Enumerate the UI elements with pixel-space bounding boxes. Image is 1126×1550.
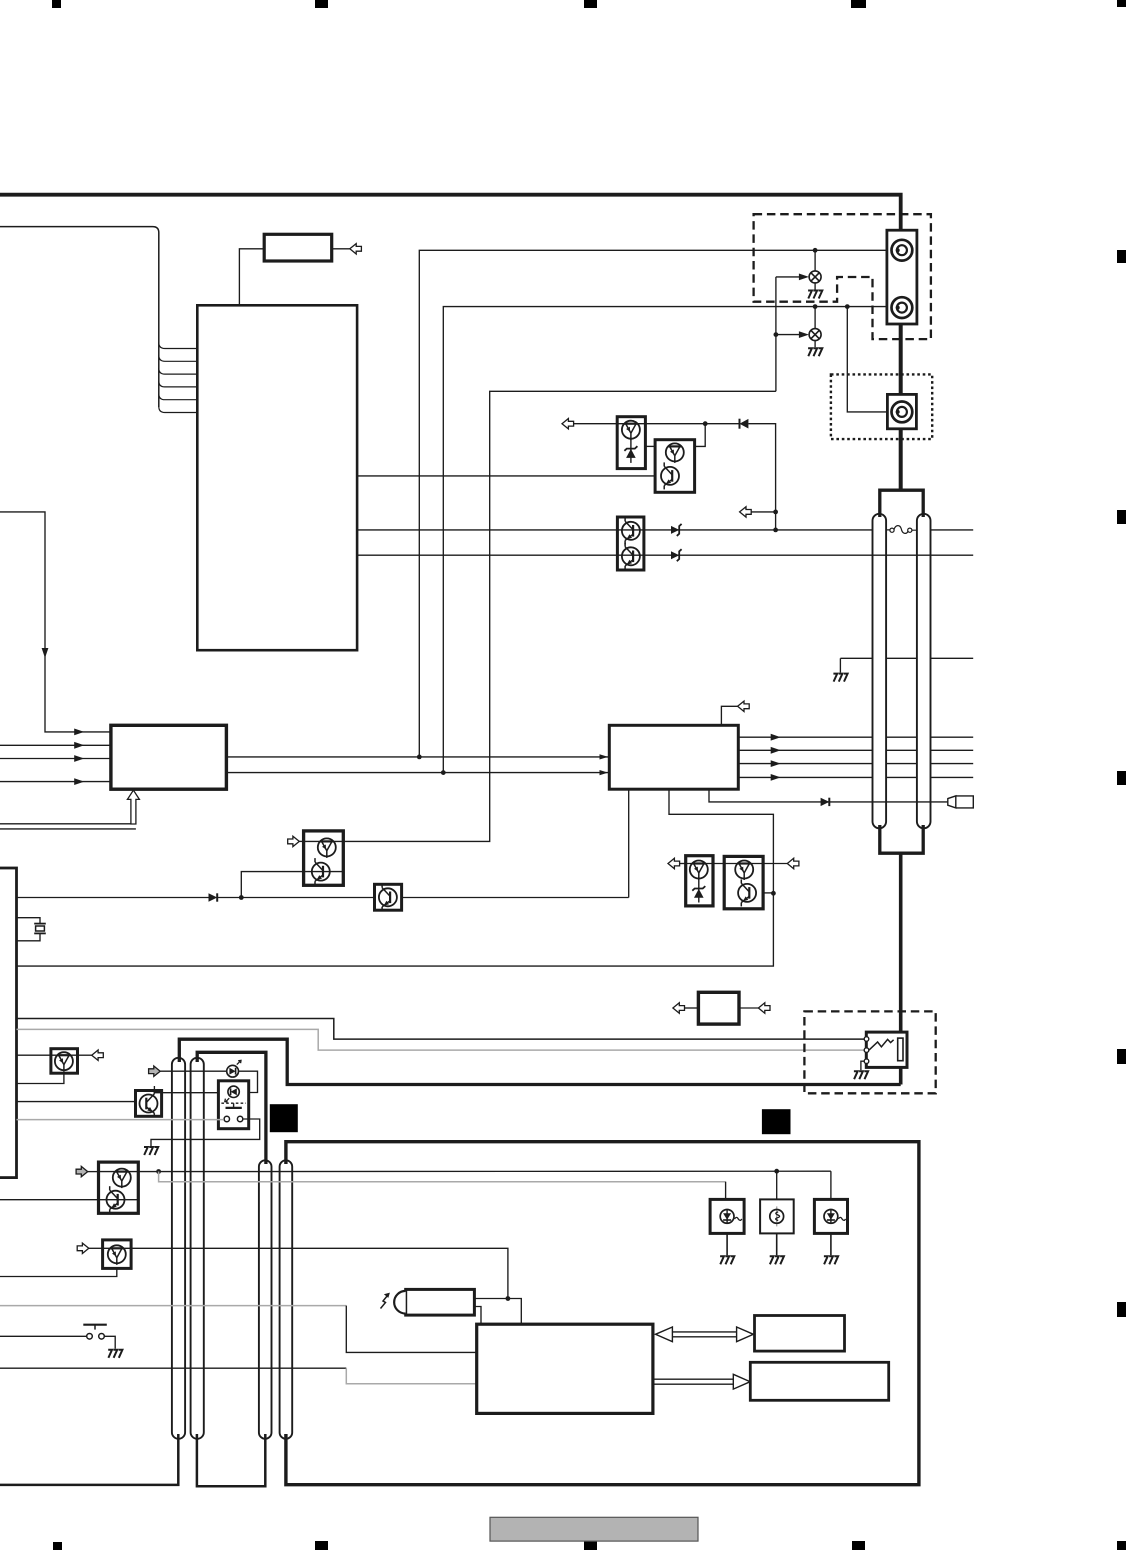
jack pin 3 (864, 1059, 869, 1064)
node dot Q7b join (771, 891, 776, 896)
ribbon wire 5 (159, 394, 198, 400)
transistor block Q1 (with zener) (617, 417, 645, 469)
transistor block Q4 (dual) (304, 831, 344, 885)
transistor Q6a (690, 861, 708, 881)
transistor Q10b (107, 1186, 125, 1213)
photo transistor D9 (225, 1086, 240, 1102)
RCA jack 1 (892, 240, 913, 261)
wire D2 to riser (748, 424, 775, 530)
ground on cable shield (833, 674, 847, 682)
wire MCU to Q9 (17, 1101, 136, 1103)
illumination branch (gray) (159, 1172, 726, 1182)
RCA group dashed outline (754, 214, 931, 339)
level block R2 (698, 992, 739, 1024)
wire into Q1 with exit arrow (574, 423, 646, 425)
transistor block Q2 (dual) (655, 440, 695, 493)
illumination supply wire (138, 1170, 831, 1172)
Q8 emitter return (17, 1073, 64, 1083)
ribbon wire 2 (159, 355, 198, 361)
switch plunger (233, 1103, 235, 1107)
amp block IC3 (609, 725, 738, 789)
resistor R1 block (264, 234, 332, 261)
ground under D11 (830, 1233, 832, 1255)
Q11 input arrow (89, 1247, 103, 1249)
wire R1 output with arrow (332, 248, 350, 250)
IC3 output 2 (738, 749, 973, 751)
LED block drop 3 (830, 1171, 832, 1199)
LED block D10 (710, 1199, 744, 1233)
wire through Q4a (304, 840, 344, 842)
node dot audio L join (773, 528, 778, 533)
node riser to jack L wire (443, 307, 887, 773)
jack 3 dotted outline (831, 374, 932, 439)
mute tap arrow (751, 511, 775, 513)
coil L1 in cable (886, 526, 917, 534)
audio wire L after cable (931, 529, 974, 531)
node dot Q2a join (703, 421, 708, 426)
ribbon wire 4 (159, 381, 198, 387)
chassis lamp 2 drop (814, 307, 816, 329)
main board top border (0, 195, 901, 231)
connector bar CN1a (172, 1058, 185, 1439)
transistor block Q11 (103, 1240, 132, 1269)
node dot L wire (813, 304, 818, 309)
CN1b-CN2a bottom link (197, 1434, 265, 1486)
R2 left arrow (684, 1007, 698, 1009)
transistor Q7a (735, 861, 753, 881)
U1 output wire 1 to Q2b (357, 475, 655, 477)
IC3 output 1 (738, 736, 973, 738)
mute wire from MCU (17, 897, 209, 899)
pin plug P1 (948, 796, 974, 808)
node dot L wire 2 (845, 304, 850, 309)
headphone wire L (17, 1019, 865, 1040)
cable staple bottom (880, 825, 923, 853)
wire left input with down arrow (0, 512, 111, 732)
lamp block L2 (760, 1199, 794, 1233)
shield bus to headphone (899, 852, 903, 1034)
ground under lamp 2 (808, 348, 822, 356)
section marker B (762, 1109, 791, 1134)
Q6 input arrow (679, 863, 685, 865)
ground under L2 (776, 1233, 778, 1255)
chassis lamp 1 (809, 271, 821, 283)
transistor Q4b (312, 858, 330, 885)
switch wire from MCU (gray) (17, 1119, 224, 1121)
wire through Q4b (304, 871, 344, 873)
jack pin 1 (864, 1037, 869, 1042)
wire into Q10b (0, 1199, 138, 1201)
input wire 4 (0, 781, 111, 783)
bus arrow into IC2 bottom (127, 790, 139, 824)
sub block B2 (750, 1362, 888, 1400)
zener D3 (671, 524, 682, 536)
IC3 output 4 (738, 776, 973, 778)
wire R1 to U1 (239, 249, 264, 305)
shield bus headphone to border (899, 1066, 903, 1085)
node dot R wire (813, 248, 818, 253)
input wire 3 (0, 758, 111, 760)
headphone jack J1 (866, 1032, 907, 1067)
mechanical link dashed (221, 1102, 246, 1104)
switch contact b (237, 1116, 242, 1121)
connector bar CN2b (280, 1160, 293, 1439)
Q10 input arrow (88, 1171, 99, 1173)
transistor block Q7 (dual) (724, 856, 763, 908)
eject switch S2 (0, 1335, 87, 1337)
mute feed riser (343, 391, 776, 841)
LED feed arrow (gray) (160, 1070, 227, 1072)
transistor block Q5 (375, 884, 402, 910)
mute wire to Q5 (217, 897, 629, 899)
section marker A (270, 1104, 298, 1132)
chassis lamp 2 (809, 329, 821, 341)
ribbon wire 1 (159, 343, 198, 349)
transistor Q1a (622, 421, 640, 441)
lamp 2 feed arrow (776, 334, 801, 336)
Q7b out wire (763, 892, 773, 894)
zener D4 (671, 549, 682, 561)
RCA connector body CN-B (887, 394, 916, 428)
jack pin 2 (864, 1048, 869, 1053)
connector bar CN3b (917, 514, 931, 829)
cable ground wire (840, 657, 872, 659)
zener D1 (630, 439, 632, 463)
CN1a stub to left board (0, 1434, 178, 1485)
left MCU block (cut at page edge) (0, 868, 17, 1178)
bottom board border (286, 1142, 919, 1485)
transistor block Q8 (51, 1049, 78, 1074)
caption placeholder (490, 1517, 698, 1541)
transistor Q7b (738, 879, 756, 906)
Q11 output to lamp (131, 1248, 508, 1298)
lamp 1 feed arrow (776, 276, 801, 278)
connector bar CN3a (873, 514, 887, 829)
Q5 collector riser to amp block (628, 789, 630, 897)
branch to Q4 pair (241, 872, 303, 898)
main board bottom border (179, 1039, 900, 1084)
wire Q1 line to diode (645, 423, 739, 425)
lamp feed riser (775, 277, 777, 391)
transistor Q4a (318, 838, 336, 858)
transistor block Q3 (dual) (617, 517, 644, 570)
R2 right arrow (739, 1007, 758, 1009)
board link CN1b to CN2a (197, 1052, 266, 1164)
IC3 output 3 (738, 763, 973, 765)
RCA jack 2 (892, 297, 913, 318)
shield bus segment jack3-cable (899, 428, 903, 490)
input wire 2 (0, 744, 111, 746)
audio wire R (U1 to cable) (357, 554, 973, 556)
wire top-left feed to U1 (0, 227, 159, 407)
connector bar CN2a (259, 1160, 272, 1439)
jack 3 wire (847, 307, 887, 412)
CD mechanism block M1 (477, 1324, 653, 1413)
transistor block Q9 (136, 1091, 162, 1117)
lamp wires (474, 1299, 521, 1325)
node dot mute tap (773, 510, 778, 515)
spindle lamp L3 (406, 1289, 475, 1315)
LED block drop 2 (776, 1171, 778, 1199)
bus wire pair from left (0, 823, 131, 825)
connector bar CN1b (191, 1058, 204, 1439)
RCA jack 3 (892, 402, 913, 423)
output bus arrow (653, 1374, 750, 1389)
wire through Q6/Q7 (686, 863, 788, 865)
crystal X1 (17, 918, 41, 924)
LED return wire (239, 1071, 258, 1092)
LED block drop 1 (725, 1182, 727, 1200)
chassis lamp 1 drop (814, 250, 816, 271)
IC3 top elbow arrow (721, 706, 737, 725)
transistor block Q10 (dual) (99, 1162, 139, 1213)
mech wire B (0, 1367, 346, 1369)
ground under D10 (726, 1233, 728, 1255)
transistor Q2a (666, 443, 684, 463)
LED block D11 (814, 1199, 847, 1233)
headphone jack dashed outline (804, 1011, 935, 1093)
ground under lamp 1 (808, 291, 822, 299)
wire through Q11 (103, 1247, 132, 1249)
transistor block Q6 (with zener) (686, 856, 713, 906)
driver block IC2 (111, 725, 226, 789)
wire through Q10a (99, 1171, 139, 1173)
switch return to ground (151, 1119, 260, 1146)
RCA connector body CN-A (887, 230, 917, 324)
sub block B1 (755, 1316, 845, 1352)
Q11 return wire (0, 1268, 117, 1276)
wire Q9 to photo LED (154, 1092, 218, 1094)
transistor Q3b (622, 543, 640, 570)
cable staple top (880, 490, 923, 517)
ribbon wire 6 (159, 407, 198, 413)
node riser to jack R wire (419, 250, 887, 757)
diode D2 (left pointing) (739, 419, 741, 429)
shield bus segment jack1-jack3 (899, 323, 903, 395)
IC2 output wire A (226, 756, 609, 758)
wire Q1 to Q2 (645, 445, 655, 447)
wire Q2a out riser (695, 424, 706, 447)
border stub to Q9 (153, 1086, 155, 1094)
transistor Q3a (622, 517, 640, 544)
Q4 input arrow (299, 840, 303, 842)
transistor Q10a (113, 1169, 131, 1189)
ribbon wire 3 (159, 368, 198, 374)
switch contact a (224, 1116, 229, 1121)
opto switch S1 block (218, 1081, 248, 1129)
bidirectional bus arrow (656, 1327, 754, 1342)
IC3 feedback loop wire (17, 789, 774, 966)
diode D5 (209, 893, 218, 901)
photo LED D8 (227, 1060, 241, 1077)
audio wire L (U1 to cable) (357, 529, 872, 531)
headphone wire R (gray) (17, 1029, 865, 1050)
transistor Q2b (661, 462, 679, 489)
IC3 detector output with diode (709, 789, 948, 802)
mech wire A (0, 1305, 346, 1307)
transistor Q5 (379, 884, 397, 911)
zener D7 (698, 877, 700, 903)
diode D6 (821, 798, 830, 806)
IC U1 main block (197, 305, 357, 650)
IC2 output wire B (226, 772, 609, 774)
jack ground (861, 1061, 864, 1070)
